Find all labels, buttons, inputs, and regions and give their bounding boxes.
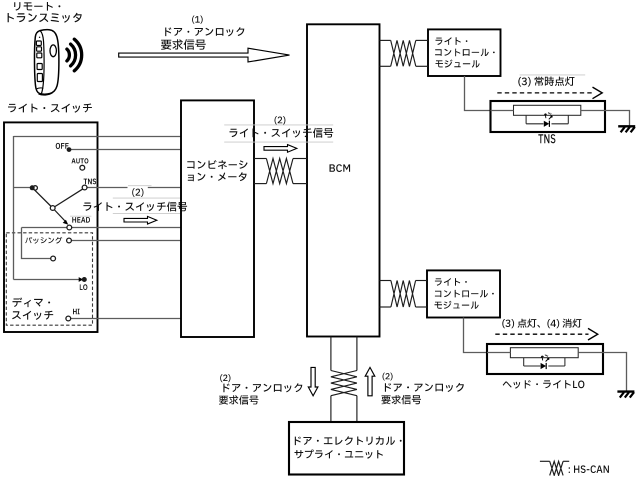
lever arrowhead to HEAD	[63, 220, 69, 225]
contact HEAD	[67, 217, 90, 230]
wire passing L	[22, 228, 54, 259]
headlamp LED loop	[524, 358, 565, 366]
TNS lamp assembly box	[491, 101, 606, 132]
label パッシング	[25, 237, 62, 244]
wire passing to meter	[69, 240, 181, 242]
block arrow up (2) request to BCM	[365, 367, 375, 395]
wire through headlamp bulb	[487, 352, 510, 354]
label (2) ライト・スイッチ信号 (switch to meter)	[70, 186, 187, 217]
HS-CAN twisted pair BCM to module 1	[380, 40, 429, 66]
TNS LED loop	[526, 115, 568, 124]
ground (TNS)	[618, 126, 635, 132]
label ライト・コントロール・モジュール (2)	[435, 278, 494, 309]
light control module 1 box	[428, 29, 501, 76]
contact OFF (dot)	[56, 143, 72, 152]
wire LO row	[14, 279, 80, 281]
label BCM	[330, 164, 351, 172]
lever pivot circle	[50, 206, 55, 211]
HS-CAN twisted pair BCM to module 2	[380, 281, 428, 308]
dimmer switch dashed box	[6, 233, 92, 325]
label (2) ライト・スイッチ信号 (meter to BCM)	[224, 116, 333, 142]
contact LO	[79, 277, 88, 290]
contact AUTO	[72, 158, 89, 170]
signal arrow (1) remote to BCM	[119, 48, 290, 62]
block arrow light switch signal #2	[264, 145, 297, 153]
contact TNS	[82, 179, 96, 190]
wire OFF to meter	[69, 149, 181, 151]
light switch box	[4, 122, 98, 332]
headlamp LO assembly box	[487, 344, 603, 374]
label (3) 点灯、(4) 消灯	[502, 319, 581, 329]
wire common vertical	[13, 136, 15, 280]
block arrow down (2) request to door unit	[308, 367, 318, 395]
label ドア・エレクトリカル・サプライ・ユニット	[295, 436, 402, 458]
remote transmitter (key fob) icon	[34, 30, 58, 95]
label ライト・スイッチ	[8, 104, 92, 113]
switch lever common (dot)	[14, 187, 31, 189]
HS-CAN twisted pair BCM to door unit (vertical)	[331, 337, 357, 423]
dashed arrow (3) TNS always on	[497, 87, 602, 99]
door electrical supply unit box	[289, 422, 404, 475]
wire module1 to TNS lamp	[465, 76, 491, 111]
TNS bulb rectangle	[514, 105, 581, 115]
label (2) ドア・アンロック要求信号 (left)	[219, 374, 302, 405]
block arrow light switch signal #1	[124, 216, 157, 224]
legend HS-CAN twisted pair symbol	[540, 461, 569, 475]
label : HS-CAN	[569, 465, 609, 473]
HS-CAN twisted pair meter to BCM	[254, 159, 307, 184]
wire HEAD to meter	[22, 227, 182, 229]
contact passing moving end	[51, 256, 56, 261]
wire through TNS bulb	[491, 110, 514, 112]
label コンビネーション・メータ	[187, 160, 247, 181]
label リモート・トランスミッタ	[8, 2, 82, 23]
headlamp bulb rectangle	[510, 348, 578, 358]
combination meter box	[181, 100, 254, 337]
radio waves	[67, 39, 82, 71]
contact HI	[66, 309, 80, 321]
wire HI to meter	[68, 318, 181, 320]
label (2) ドア・アンロック要求信号 (right)	[382, 373, 464, 405]
light control module 2 box	[427, 270, 500, 317]
label TNS	[538, 134, 555, 143]
wire TNS to meter	[85, 187, 128, 189]
label (3) 常時点灯	[518, 75, 585, 87]
TNS LED symbol	[544, 112, 552, 127]
wire TNS to ground	[605, 111, 630, 126]
wire module2 to headlamp	[464, 318, 488, 353]
label (1) ドア・アンロック要求信号	[161, 16, 244, 50]
wire headlamp to ground	[603, 353, 627, 391]
dashed arrow (3)(4) headlight	[495, 328, 597, 340]
ground (headlamp)	[617, 392, 634, 398]
wire common feed (top)	[14, 136, 182, 138]
label ヘッド・ライトLO	[503, 380, 585, 389]
label ライト・コントロール・モジュール (1)	[435, 37, 495, 67]
switch lever arms	[32, 188, 84, 208]
contact passing	[67, 238, 72, 243]
headlamp LED symbol	[541, 355, 549, 370]
label ディマ・スイッチ	[12, 298, 53, 320]
BCM box	[307, 24, 380, 336]
